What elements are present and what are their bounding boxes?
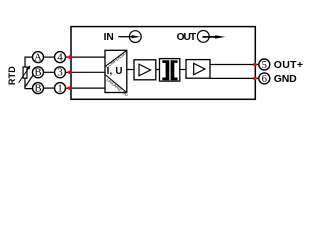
wire B to 3 xyxy=(44,71,55,73)
wire RTD bottom run xyxy=(25,78,33,88)
amplifier A1 box xyxy=(134,60,156,80)
wire transformer to amp2 xyxy=(180,69,186,71)
wire terminal 3 to input block xyxy=(66,71,105,73)
converter lower diagonal xyxy=(105,75,127,93)
transformer right winding xyxy=(171,60,178,80)
svg-text:4: 4 xyxy=(57,53,63,64)
terminal 3 xyxy=(55,67,66,79)
junction dot terminal 1 xyxy=(68,86,72,90)
svg-text:3: 3 xyxy=(57,68,62,79)
terminal 4 xyxy=(55,52,66,64)
junction dot terminal 6 xyxy=(253,77,257,81)
resistor RTD sensor body xyxy=(23,67,27,78)
wire amp2 to terminal 5 xyxy=(210,64,259,66)
junction dot terminal 4 xyxy=(68,55,72,59)
wire B to 1 xyxy=(44,87,55,89)
junction dot terminal 5 xyxy=(253,63,257,67)
svg-text:OUT: OUT xyxy=(177,32,197,43)
wire A to 4 xyxy=(44,56,55,58)
amplifier A2 box xyxy=(186,60,210,79)
resistor adjustment arrow xyxy=(19,66,31,83)
svg-text:A: A xyxy=(34,53,42,64)
terminal B middle xyxy=(33,67,44,79)
terminal 1 xyxy=(55,83,66,95)
wire amp1 to transformer xyxy=(156,69,160,71)
svg-text:1: 1 xyxy=(57,84,62,95)
wire terminal 1 to input block xyxy=(66,87,105,89)
svg-text:I, U: I, U xyxy=(107,66,123,77)
transformer left winding xyxy=(162,60,169,80)
terminal B bottom xyxy=(33,83,44,95)
isolation transformer T1 box xyxy=(160,59,180,82)
OUT adjust circle xyxy=(197,31,209,43)
svg-text:OUT+: OUT+ xyxy=(274,59,304,71)
terminal 5 xyxy=(259,59,270,71)
svg-text:IN: IN xyxy=(104,32,114,43)
amplifier A1 triangle xyxy=(139,64,151,76)
svg-text:5: 5 xyxy=(262,60,267,71)
IN adjust arrow xyxy=(118,35,140,38)
junction dot terminal 3 xyxy=(68,71,72,75)
OUT adjust arrow xyxy=(203,35,226,38)
input converter block U1 xyxy=(105,50,127,92)
wire RTD diagonal to terminal B middle xyxy=(25,74,34,88)
wire amp2 to terminal 6 xyxy=(210,77,259,79)
transmitter enclosure box xyxy=(71,27,255,100)
terminal 6 xyxy=(259,73,270,85)
wire RTD top to terminal A xyxy=(25,57,33,67)
svg-text:GND: GND xyxy=(274,73,297,85)
wire converter to amp1 xyxy=(127,69,134,71)
terminal A xyxy=(33,52,44,64)
converter upper diagonal xyxy=(105,50,127,66)
svg-text:RTD: RTD xyxy=(7,66,17,85)
svg-text:B: B xyxy=(34,68,41,79)
svg-text:6: 6 xyxy=(262,74,267,85)
IN adjust circle xyxy=(129,31,141,43)
wire terminal 4 to input block xyxy=(66,56,105,58)
svg-text:B: B xyxy=(34,84,41,95)
amplifier A2 triangle xyxy=(194,63,205,74)
